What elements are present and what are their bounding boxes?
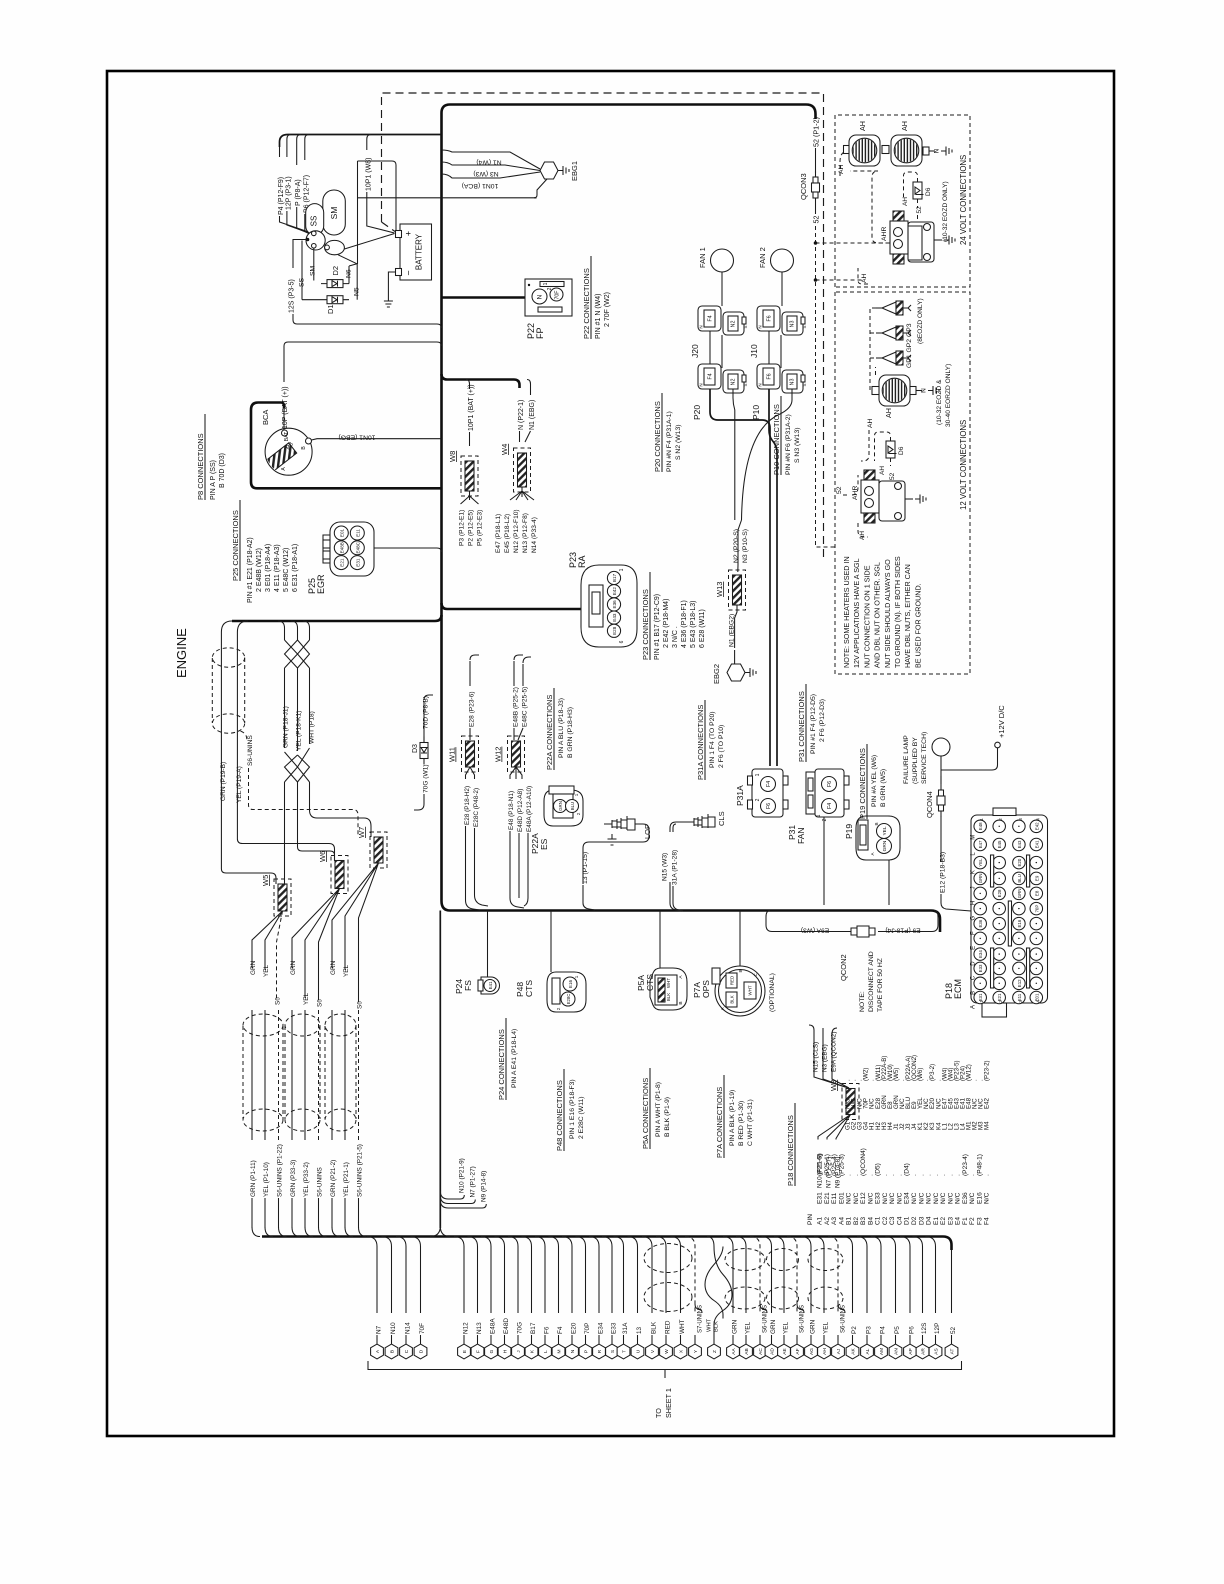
svg-text:C2: C2 xyxy=(882,1216,889,1225)
svg-text:E9: E9 xyxy=(1034,875,1039,881)
splice W12 xyxy=(512,741,521,767)
svg-text:N/C: N/C xyxy=(889,1192,896,1204)
svg-text:ECM: ECM xyxy=(953,979,963,999)
svg-text:N: N xyxy=(537,294,544,299)
svg-text:N1 (W4): N1 (W4) xyxy=(476,159,501,166)
wire W13 to EBG2 xyxy=(735,605,737,648)
svg-text:2: 2 xyxy=(576,812,581,815)
svg-text:S: S xyxy=(802,383,807,386)
box 12 volt connections xyxy=(835,292,970,674)
wire trunk branch to W8 W4 xyxy=(442,374,520,388)
svg-text:S6-UNINS (P21-5): S6-UNINS (P21-5) xyxy=(357,1144,364,1197)
starter motor housing circle xyxy=(306,231,325,250)
svg-text:N13 (P12-F8): N13 (P12-F8) xyxy=(522,513,529,553)
svg-text:P5: P5 xyxy=(894,1326,901,1334)
lamp failure lamp xyxy=(932,738,950,756)
svg-text:2: 2 xyxy=(755,798,761,801)
svg-text:1: 1 xyxy=(979,818,984,821)
svg-text:AC: AC xyxy=(758,1348,764,1355)
svg-text:N2: N2 xyxy=(731,321,737,328)
svg-text:52: 52 xyxy=(916,206,923,214)
svg-text:E9 (P18-J4): E9 (P18-J4) xyxy=(885,927,920,934)
svg-text:N6: N6 xyxy=(346,269,353,278)
wire P10 to P31A pin2 xyxy=(769,389,777,766)
svg-text:N13: N13 xyxy=(476,1322,483,1334)
splice W6 xyxy=(335,861,344,889)
relay J20 xyxy=(698,306,721,331)
svg-text:2 E28C (W11): 2 E28C (W11) xyxy=(578,1096,585,1139)
diode D6 12v xyxy=(886,441,895,458)
svg-text:2: 2 xyxy=(998,1000,1003,1003)
svg-text:AN: AN xyxy=(894,1348,900,1355)
svg-text:GRN (P18-J1): GRN (P18-J1) xyxy=(283,706,290,748)
connector P23 RA xyxy=(581,565,637,647)
wire SS sense branch xyxy=(306,238,310,242)
svg-text:E11: E11 xyxy=(355,529,360,537)
svg-text:RA: RA xyxy=(577,555,587,568)
svg-text:P (P8-A): P (P8-A) xyxy=(295,179,302,206)
svg-text:E28C: E28C xyxy=(566,994,571,1004)
svg-text:E28 (P23-6): E28 (P23-6) xyxy=(469,691,476,727)
svg-text:E48A (P12-A10): E48A (P12-A10) xyxy=(526,786,533,832)
wire P5A drop xyxy=(659,911,661,969)
svg-text:W7: W7 xyxy=(357,827,366,838)
svg-text:M: M xyxy=(971,835,977,840)
svg-text:.: . xyxy=(955,1174,962,1176)
relay base P10 xyxy=(757,364,780,389)
svg-text:WHT: WHT xyxy=(679,1319,686,1334)
svg-text:N14: N14 xyxy=(404,1322,411,1334)
svg-text:PIN A E41 (P18-L4): PIN A E41 (P18-L4) xyxy=(511,1029,518,1088)
svg-text:PIN A P (SS): PIN A P (SS) xyxy=(210,460,217,500)
fan FAN 1 xyxy=(711,249,734,272)
wire P20 to P31A pin1 xyxy=(710,389,770,766)
svg-text:12P (P3-1): 12P (P3-1) xyxy=(285,176,292,210)
svg-text:A3: A3 xyxy=(831,1217,838,1225)
ground battery xyxy=(384,296,393,307)
svg-text:(P25-1): (P25-1) xyxy=(824,1154,831,1176)
wire GRN P19-B to W5 xyxy=(221,621,276,884)
svg-text:E21: E21 xyxy=(339,558,344,567)
twisted pair WHT BLK xyxy=(707,1237,732,1333)
ecm key bars xyxy=(991,855,994,887)
svg-text:BAT: BAT xyxy=(284,432,290,441)
wire SM diode branch xyxy=(313,248,315,280)
wire 10N1 EBG from BCA to trunk xyxy=(312,439,442,440)
svg-text:1: 1 xyxy=(816,814,822,817)
connector P22 FP xyxy=(525,279,572,316)
svg-text:W4: W4 xyxy=(500,444,509,455)
svg-text:24 VOLT CONNECTIONS: 24 VOLT CONNECTIONS xyxy=(959,155,968,245)
svg-text:PIN #A YEL (W6): PIN #A YEL (W6) xyxy=(871,755,878,807)
svg-text:P: P xyxy=(584,1350,590,1353)
svg-text:E34: E34 xyxy=(904,1192,911,1204)
svg-text:E3: E3 xyxy=(947,1217,954,1225)
svg-text:N: N xyxy=(934,148,941,153)
svg-text:N1 (EBG): N1 (EBG) xyxy=(529,400,536,430)
svg-text:4 E11 (P18-A3): 4 E11 (P18-A3) xyxy=(274,544,281,592)
svg-text:RED: RED xyxy=(730,976,735,985)
svg-text:P5 (P12-E3): P5 (P12-E3) xyxy=(477,510,484,546)
svg-text:GRN: GRN xyxy=(330,960,337,975)
svg-text:AE: AE xyxy=(782,1348,788,1354)
svg-text:D2: D2 xyxy=(331,266,340,276)
svg-text:N/C: N/C xyxy=(867,1192,874,1204)
svg-text:BCA: BCA xyxy=(261,410,270,425)
terminal row main group xyxy=(454,1237,464,1314)
svg-text:E28: E28 xyxy=(612,626,617,635)
heater AH 12v xyxy=(879,375,910,406)
svg-text:E21: E21 xyxy=(824,1192,831,1204)
connector QCON4 xyxy=(940,784,942,790)
svg-text:N/C: N/C xyxy=(853,1192,860,1204)
svg-text:N (P22-1): N (P22-1) xyxy=(518,400,525,430)
svg-text:GRN: GRN xyxy=(250,960,257,975)
svg-text:2: 2 xyxy=(556,1007,561,1010)
wire S6-UNINS shield upper xyxy=(241,731,248,740)
svg-text:PIN A BLU (P18-J3): PIN A BLU (P18-J3) xyxy=(558,698,565,758)
svg-text:+: + xyxy=(404,231,414,236)
svg-text:GRN: GRN xyxy=(290,960,297,975)
svg-text:.: . xyxy=(882,1174,889,1176)
svg-text:E48C: E48C xyxy=(355,541,360,553)
wire 12P lead xyxy=(287,135,291,158)
svg-text:N/C: N/C xyxy=(846,1192,853,1204)
svg-text:ENGINE: ENGINE xyxy=(174,628,189,678)
svg-text:N3 (W3): N3 (W3) xyxy=(473,170,498,177)
conduit cylinders lower xyxy=(243,1014,283,1036)
svg-text:NOTE:: NOTE: xyxy=(859,991,866,1012)
svg-text:F2: F2 xyxy=(969,1217,976,1225)
wire N10 N7 N9 stub hooks xyxy=(440,1191,464,1199)
svg-text:S6-UNINS (P1-22): S6-UNINS (P1-22) xyxy=(277,1144,284,1197)
svg-text:S N2 (W13): S N2 (W13) xyxy=(675,424,682,460)
svg-text:N/C: N/C xyxy=(882,1192,889,1204)
wire W6 fanout xyxy=(292,889,340,1001)
glow plug GP1 xyxy=(882,352,896,364)
svg-text:N3: N3 xyxy=(790,321,796,328)
wire P48 drop xyxy=(550,911,552,973)
svg-text:E36: E36 xyxy=(978,919,983,927)
battery xyxy=(400,224,432,280)
svg-text:P25 CONNECTIONS: P25 CONNECTIONS xyxy=(231,510,240,581)
svg-text:(W12): (W12) xyxy=(966,1064,973,1081)
splice W8 xyxy=(465,461,474,491)
svg-text:1: 1 xyxy=(979,1000,984,1003)
splice W5 xyxy=(278,884,287,911)
svg-text:2 70F (W2): 2 70F (W2) xyxy=(604,292,611,327)
svg-text:S6-UNINS: S6-UNINS xyxy=(841,1305,847,1333)
svg-text:E20: E20 xyxy=(1017,858,1022,866)
svg-text:.: . xyxy=(853,1174,860,1176)
conduit cylinder upper xyxy=(212,648,244,667)
svg-text:PIN 1 F4 (TO P20): PIN 1 F4 (TO P20) xyxy=(709,711,716,768)
svg-text:E48: E48 xyxy=(978,822,983,830)
wire trunk to P22 FP xyxy=(442,296,526,299)
svg-text:F6: F6 xyxy=(827,781,833,787)
svg-text:BLK: BLK xyxy=(666,993,671,1001)
svg-text:52: 52 xyxy=(836,486,843,494)
svg-text:N7 (P1-27): N7 (P1-27) xyxy=(470,1166,477,1197)
connector P25 EGR xyxy=(330,522,374,576)
diode D6 24v xyxy=(913,182,922,199)
svg-text:BLK: BLK xyxy=(650,1321,657,1334)
svg-text:E42: E42 xyxy=(612,587,617,596)
svg-text:P7A CONNECTIONS: P7A CONNECTIONS xyxy=(715,1087,724,1158)
svg-text:C WHT (P1-31): C WHT (P1-31) xyxy=(747,1099,754,1146)
svg-text:E41: E41 xyxy=(1034,840,1039,848)
svg-text:Z: Z xyxy=(712,1350,718,1353)
svg-text:P22 CONNECTIONS: P22 CONNECTIONS xyxy=(582,268,591,339)
svg-text:1: 1 xyxy=(574,975,579,978)
svg-text:HAVE DBL NUTS, EITHER CAN: HAVE DBL NUTS, EITHER CAN xyxy=(903,564,912,668)
starter solenoid SS xyxy=(306,204,324,235)
svg-text:B2: B2 xyxy=(853,1217,860,1225)
wire P6 lead xyxy=(305,135,309,161)
connector P5A CTS xyxy=(650,968,687,1010)
starter nose ellipse xyxy=(325,240,345,254)
svg-text:YEL: YEL xyxy=(263,964,270,977)
glow plug GP3 xyxy=(882,302,896,314)
svg-text:B GRN (P18-H3): B GRN (P18-H3) xyxy=(567,707,574,758)
svg-text:N9 (P14-8): N9 (P14-8) xyxy=(481,1171,488,1202)
svg-text:YEL: YEL xyxy=(744,1321,751,1334)
wire W5 fanout xyxy=(252,911,283,970)
svg-text:E48B (P25-2): E48B (P25-2) xyxy=(513,687,520,727)
svg-text:E47 (P18-L1): E47 (P18-L1) xyxy=(495,514,502,553)
svg-text:.: . xyxy=(940,1174,947,1176)
wire N5 branch xyxy=(356,264,358,300)
starter motor SM xyxy=(323,190,346,235)
svg-text:F6: F6 xyxy=(766,803,772,809)
svg-text:W11: W11 xyxy=(448,747,457,762)
svg-text:12S (P3-5): 12S (P3-5) xyxy=(289,279,296,313)
svg-text:(P48-1): (P48-1) xyxy=(976,1154,983,1176)
svg-text:B GRN (W5): B GRN (W5) xyxy=(880,769,887,807)
svg-text:J10: J10 xyxy=(749,344,759,358)
svg-text:GRN: GRN xyxy=(558,801,563,811)
svg-text:E48D: E48D xyxy=(503,1318,510,1334)
svg-text:W13: W13 xyxy=(715,582,724,597)
connector QCON3 xyxy=(815,171,817,177)
svg-text:N10: N10 xyxy=(390,1322,397,1334)
svg-text:PIN #N F4 (P31A-1): PIN #N F4 (P31A-1) xyxy=(666,411,673,472)
svg-text:N/C: N/C xyxy=(947,1192,954,1204)
svg-text:10P1 (BAT (+)): 10P1 (BAT (+)) xyxy=(468,384,475,431)
svg-text:EBG1: EBG1 xyxy=(570,161,579,181)
svg-text:EGR: EGR xyxy=(316,574,326,594)
svg-text:N2: N2 xyxy=(731,379,737,386)
svg-text:52 (P1-2): 52 (P1-2) xyxy=(812,117,821,147)
svg-text:YEL: YEL xyxy=(303,992,310,1005)
wire twisted trio from bus xyxy=(278,621,310,640)
svg-text:N/C: N/C xyxy=(940,1192,947,1204)
svg-text:C3: C3 xyxy=(889,1216,896,1225)
svg-text:B BLK (P1-9): B BLK (P1-9) xyxy=(664,1097,671,1137)
svg-text:AR: AR xyxy=(921,1348,927,1355)
svg-text:S6-UNINS: S6-UNINS xyxy=(317,1167,324,1197)
svg-text:GRN: GRN xyxy=(809,1319,816,1334)
svg-text:P2 (P12-E5): P2 (P12-E5) xyxy=(468,510,475,546)
wire EBG1 to starter ground net xyxy=(534,179,547,198)
svg-text:F4: F4 xyxy=(984,1217,991,1225)
svg-text:D2: D2 xyxy=(911,1216,918,1225)
svg-text:P19: P19 xyxy=(844,824,854,839)
svg-text:P24 CONNECTIONS: P24 CONNECTIONS xyxy=(497,1029,506,1100)
svg-text:QCON4: QCON4 xyxy=(925,791,934,818)
svg-text:N2 (P20-S): N2 (P20-S) xyxy=(733,529,740,563)
wire P25 to trunk xyxy=(374,548,442,552)
svg-text:F4: F4 xyxy=(708,373,714,379)
svg-text:W: W xyxy=(664,1349,670,1354)
svg-text:P19 CONNECTIONS: P19 CONNECTIONS xyxy=(858,748,867,819)
svg-text:N: N xyxy=(921,388,928,393)
svg-text:N: N xyxy=(699,325,704,328)
svg-text:E11: E11 xyxy=(831,1192,838,1204)
svg-text:P3: P3 xyxy=(865,1326,872,1334)
svg-text:YEL (P21-1): YEL (P21-1) xyxy=(343,1162,350,1197)
svg-text:E20: E20 xyxy=(570,1322,577,1334)
svg-text:N/C: N/C xyxy=(911,1192,918,1204)
svg-text:70P: 70P xyxy=(584,1323,591,1334)
svg-text:B17: B17 xyxy=(530,1322,537,1334)
splice W4 xyxy=(518,453,527,487)
svg-text:(D4): (D4) xyxy=(904,1163,911,1176)
svg-text:5 E48C (W12): 5 E48C (W12) xyxy=(283,548,290,592)
svg-text:12 VOLT CONNECTIONS: 12 VOLT CONNECTIONS xyxy=(959,420,968,510)
svg-text:N14 (P33-4): N14 (P33-4) xyxy=(531,517,538,553)
svg-text:E36: E36 xyxy=(962,1192,969,1204)
connector P48 CTS xyxy=(547,972,586,1012)
svg-text:52: 52 xyxy=(950,1326,957,1334)
svg-text:70F: 70F xyxy=(555,291,561,300)
svg-text:(P3-2): (P3-2) xyxy=(929,1064,936,1081)
svg-text:(QCON4): (QCON4) xyxy=(860,1148,867,1176)
svg-text:E01: E01 xyxy=(339,528,344,537)
wire W12 fanout down xyxy=(510,767,522,779)
svg-text:E42: E42 xyxy=(984,1097,991,1109)
svg-text:GRN (P1-11): GRN (P1-11) xyxy=(250,1160,257,1197)
svg-text:E43: E43 xyxy=(1017,840,1022,848)
svg-text:E48A: E48A xyxy=(489,1318,496,1334)
svg-text:(P25-6): (P25-6) xyxy=(817,1154,824,1176)
svg-text:2 E48B (W12): 2 E48B (W12) xyxy=(256,548,263,592)
svg-text:D1: D1 xyxy=(326,304,335,314)
wire P4 lead xyxy=(279,147,281,157)
svg-text:.: . xyxy=(889,1174,896,1176)
svg-text:GRN (P33-3): GRN (P33-3) xyxy=(290,1160,297,1197)
svg-text:12S: 12S xyxy=(921,1323,928,1334)
wire W8 fanout xyxy=(461,491,479,504)
svg-text:YEL: YEL xyxy=(782,1321,789,1334)
svg-text:E36: E36 xyxy=(612,600,617,609)
svg-text:C4: C4 xyxy=(896,1216,903,1225)
svg-text:30-40 EORZD ONLY): 30-40 EORZD ONLY) xyxy=(945,364,952,427)
svg-text:PIN #1 B17 (P12-C9): PIN #1 B17 (P12-C9) xyxy=(654,594,661,660)
svg-text:BLK: BLK xyxy=(730,995,735,1003)
svg-text:E48D (P12-A8): E48D (P12-A8) xyxy=(517,789,524,832)
svg-text:ES: ES xyxy=(539,838,549,850)
svg-text:E16: E16 xyxy=(1017,919,1022,927)
relay AHR 24v xyxy=(890,221,908,254)
wire N3 lead to EBG1 xyxy=(442,162,541,171)
wire starter to battery positive xyxy=(344,234,394,250)
svg-text:YEL: YEL xyxy=(978,858,983,867)
alternator BCA xyxy=(265,428,312,475)
svg-text:YEL: YEL xyxy=(882,826,888,835)
diode D2 xyxy=(321,283,349,285)
svg-text:AH: AH xyxy=(900,121,909,131)
svg-text:E43: E43 xyxy=(612,613,617,622)
svg-text:E34: E34 xyxy=(978,950,983,958)
svg-text:FP: FP xyxy=(535,327,545,339)
wire N1 lead to EBG1 xyxy=(442,150,541,169)
svg-text:P2: P2 xyxy=(851,1326,858,1334)
twist crossover upper xyxy=(285,640,310,668)
svg-text:AF: AF xyxy=(795,1348,801,1354)
svg-text:6 E28 (W11): 6 E28 (W11) xyxy=(699,609,706,648)
glow plug GP2 xyxy=(882,327,896,339)
svg-text:N7: N7 xyxy=(375,1325,382,1334)
svg-text:(P23-4): (P23-4) xyxy=(962,1154,969,1176)
svg-text:S6: S6 xyxy=(357,1001,364,1009)
svg-text:.: . xyxy=(867,1174,874,1176)
svg-text:PIN #N F6 (P31A-2): PIN #N F6 (P31A-2) xyxy=(785,414,792,475)
svg-text:2: 2 xyxy=(547,287,553,290)
svg-text:(P25-3): (P25-3) xyxy=(838,1154,845,1176)
svg-text:PIN: PIN xyxy=(807,1214,814,1225)
svg-text:70G (W1): 70G (W1) xyxy=(423,764,430,793)
wire YEL P19-A to W6 xyxy=(237,621,334,861)
wire P19 to bus xyxy=(888,860,890,905)
wire P lead xyxy=(297,135,301,166)
svg-text:D1: D1 xyxy=(904,1216,911,1225)
svg-text:A4: A4 xyxy=(838,1217,845,1225)
svg-text:E33: E33 xyxy=(610,1322,617,1334)
svg-text:N: N xyxy=(570,1349,576,1353)
svg-text:W12: W12 xyxy=(494,747,503,762)
bracket to sheet 1 xyxy=(368,1361,962,1370)
svg-text:P3 (P12-E1): P3 (P12-E1) xyxy=(459,510,466,546)
svg-text:P18 CONNECTIONS: P18 CONNECTIONS xyxy=(786,1115,795,1186)
svg-text:E4: E4 xyxy=(955,1217,962,1225)
svg-text:WHT: WHT xyxy=(666,978,671,988)
svg-text:AP: AP xyxy=(908,1348,914,1354)
svg-text:E8: E8 xyxy=(1034,890,1039,896)
svg-text:F1: F1 xyxy=(962,1217,969,1225)
wire BCA housing loop xyxy=(251,403,442,489)
relay AHR 12v xyxy=(861,480,879,513)
svg-text:GRN: GRN xyxy=(731,1319,738,1334)
svg-text:N/C: N/C xyxy=(984,1192,991,1204)
wire W7 fanout xyxy=(332,863,379,1002)
svg-text:N/C: N/C xyxy=(918,1192,925,1204)
svg-text:52: 52 xyxy=(889,472,896,480)
svg-text:F4: F4 xyxy=(827,803,833,809)
svg-text:N5: N5 xyxy=(354,287,361,296)
dashed lead to battery positive xyxy=(382,222,396,232)
svg-text:CLS: CLS xyxy=(717,811,726,826)
svg-text:S6-UNINS: S6-UNINS xyxy=(247,735,254,766)
svg-text:AH: AH xyxy=(902,197,909,206)
svg-text:P10: P10 xyxy=(751,405,761,420)
svg-text:4 E36 (P18-F1): 4 E36 (P18-F1) xyxy=(681,600,688,648)
svg-text:FAILURE LAMP: FAILURE LAMP xyxy=(903,735,910,784)
wire P10 relay sense to W13 xyxy=(742,389,793,520)
svg-text:PIN A BLK (P1-19): PIN A BLK (P1-19) xyxy=(729,1090,736,1146)
svg-text:C1: C1 xyxy=(875,1216,882,1225)
svg-text:E41: E41 xyxy=(488,981,493,989)
